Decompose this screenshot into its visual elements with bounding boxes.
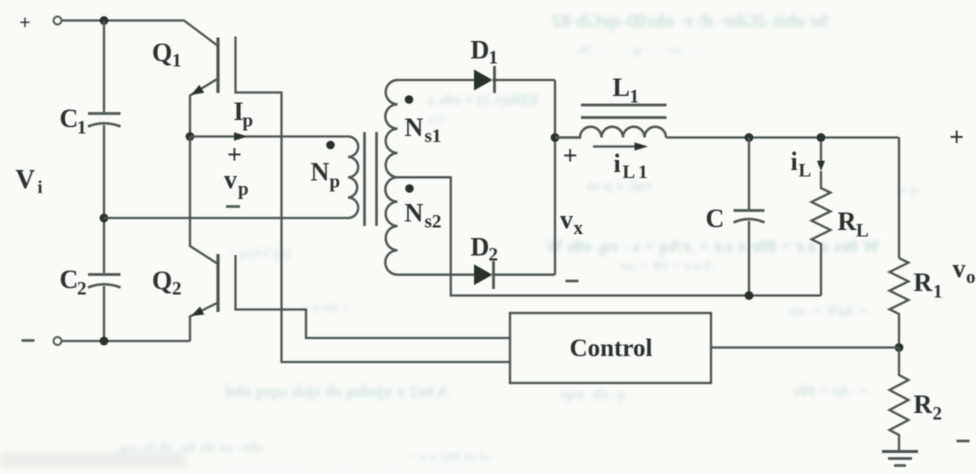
svg-text:N: N (311, 158, 330, 187)
faint page bleed-through (decorative) (552, 11, 829, 33)
inductor L1 winding (555, 127, 666, 138)
label D2 (471, 233, 499, 266)
label vx (560, 205, 584, 239)
svg-text:+: + (949, 123, 964, 152)
wire secondary bottom lead (398, 274, 475, 276)
wire secondary top lead (398, 79, 475, 81)
control block box (510, 313, 711, 383)
svg-text:v: v (224, 165, 237, 194)
ground (882, 452, 918, 466)
node C top junction (745, 133, 754, 142)
wire D1 cathode to vx (493, 79, 556, 81)
label Q1 (152, 38, 182, 72)
diode D2 (474, 261, 494, 289)
transformer core (365, 132, 377, 226)
label plus vp (227, 140, 242, 169)
minus sign vp (226, 205, 240, 208)
label Q2 (152, 266, 182, 300)
arrow iL1 (593, 142, 648, 150)
label vp (224, 165, 249, 200)
minus sign output (957, 440, 970, 443)
svg-text:V: V (16, 164, 36, 194)
wire primary bottom to mid node (104, 217, 348, 219)
svg-text:C: C (60, 104, 79, 133)
wire Q1 base drive to control (236, 37, 511, 363)
svg-text:R: R (914, 268, 933, 297)
svg-text:s2: s2 (425, 212, 442, 233)
label R1 (914, 268, 943, 303)
svg-text:i: i (791, 147, 798, 176)
label iL (791, 147, 812, 182)
wire left rail middle (103, 125, 105, 273)
label Control (570, 335, 653, 362)
svg-text:L: L (856, 221, 869, 242)
label Ns2 (405, 199, 442, 233)
svg-text:C: C (706, 204, 725, 233)
svg-text:N: N (405, 113, 424, 142)
svg-text:i: i (38, 177, 43, 197)
label vo (953, 254, 976, 288)
capacitor C (734, 138, 765, 296)
svg-text:C: C (60, 265, 79, 294)
svg-text:p: p (330, 172, 341, 193)
svg-text:1: 1 (933, 282, 943, 303)
wire left rail upper (103, 21, 105, 113)
capacitor C2 (88, 275, 121, 288)
transistor Q2 (190, 137, 218, 342)
transformer secondary winding Ns1 Ns2 (385, 80, 397, 275)
svg-text:1: 1 (630, 87, 640, 108)
node Q1 emitter junction (186, 132, 195, 141)
svg-text:N: N (405, 199, 424, 228)
label Vi (16, 164, 43, 197)
label RL (838, 207, 869, 242)
label D1 (471, 36, 499, 69)
svg-text:2: 2 (933, 404, 943, 425)
label Ip (234, 97, 254, 132)
node bottom-left junction (100, 337, 109, 346)
arrow iL (817, 142, 825, 171)
label Np (311, 158, 341, 193)
label C1 (60, 104, 87, 139)
wire vx branch vertical (554, 80, 556, 275)
wire secondary center tap and bottom rail (398, 177, 822, 295)
node mid-left junction (100, 214, 109, 223)
svg-text:D: D (471, 233, 490, 262)
node RL top junction (817, 133, 826, 142)
svg-text:Q: Q (152, 38, 172, 67)
svg-text:R: R (838, 207, 857, 236)
label plus vx (563, 141, 578, 170)
svg-text:D: D (471, 36, 490, 65)
wire bottom rail (62, 340, 190, 342)
label plus output (949, 123, 964, 152)
wire R1 top lead (898, 138, 900, 259)
label plus input (19, 12, 30, 34)
resistor RL (812, 171, 831, 296)
svg-text:R: R (914, 390, 933, 419)
minus sign input (22, 339, 35, 342)
node feedback junction (895, 343, 904, 352)
svg-text:2: 2 (172, 279, 182, 300)
wire output top rail (666, 136, 899, 138)
svg-text:v: v (953, 254, 966, 283)
node vx junction (551, 133, 560, 142)
svg-text:2: 2 (489, 245, 499, 266)
svg-text:1: 1 (77, 118, 87, 139)
polarity dot Ns1 (405, 95, 414, 104)
svg-text:p: p (238, 179, 249, 200)
wire top rail to Q1 collector (62, 21, 218, 47)
transistor Q1 (190, 38, 218, 137)
label C output (706, 204, 725, 233)
minus sign vx (566, 280, 579, 283)
svg-text:L: L (799, 161, 812, 182)
wire left rail lower (103, 286, 105, 341)
diode D1 (474, 66, 495, 93)
svg-text:1: 1 (489, 48, 499, 69)
resistor R2 (890, 348, 909, 452)
node top-left junction (100, 16, 109, 25)
wire D2 cathode to vx (493, 274, 556, 276)
wire Q2 base drive to control (236, 255, 511, 338)
svg-text:+: + (19, 12, 30, 34)
capacitor C1 (88, 114, 121, 127)
label R2 (914, 390, 943, 425)
svg-text:p: p (243, 111, 254, 132)
svg-text:s1: s1 (425, 126, 442, 147)
svg-text:+: + (563, 141, 578, 170)
svg-text:Q: Q (152, 266, 172, 295)
polarity dot Np (326, 141, 335, 150)
svg-text:1: 1 (172, 51, 182, 72)
label Ns1 (405, 113, 442, 147)
svg-text:Control: Control (570, 335, 653, 362)
input terminal + (54, 17, 62, 25)
svg-text:L1: L1 (623, 162, 651, 183)
svg-text:2: 2 (77, 279, 87, 300)
wire control output to feedback node (711, 346, 899, 348)
input terminal - (54, 337, 62, 345)
wire primary top with Ip (190, 132, 348, 140)
label L1 (613, 73, 640, 108)
label C2 (60, 265, 87, 300)
svg-text:i: i (614, 149, 621, 178)
polarity dot Ns2 (405, 184, 414, 193)
transformer primary winding Np (348, 137, 358, 219)
resistor R1 (890, 258, 909, 348)
svg-text:x: x (574, 218, 584, 239)
svg-text:o: o (966, 267, 976, 288)
svg-text:L: L (613, 73, 630, 102)
svg-text:v: v (560, 205, 573, 234)
inductor L1 core bars (581, 105, 667, 118)
node C bottom junction (745, 291, 754, 300)
label iL1 (614, 149, 651, 183)
